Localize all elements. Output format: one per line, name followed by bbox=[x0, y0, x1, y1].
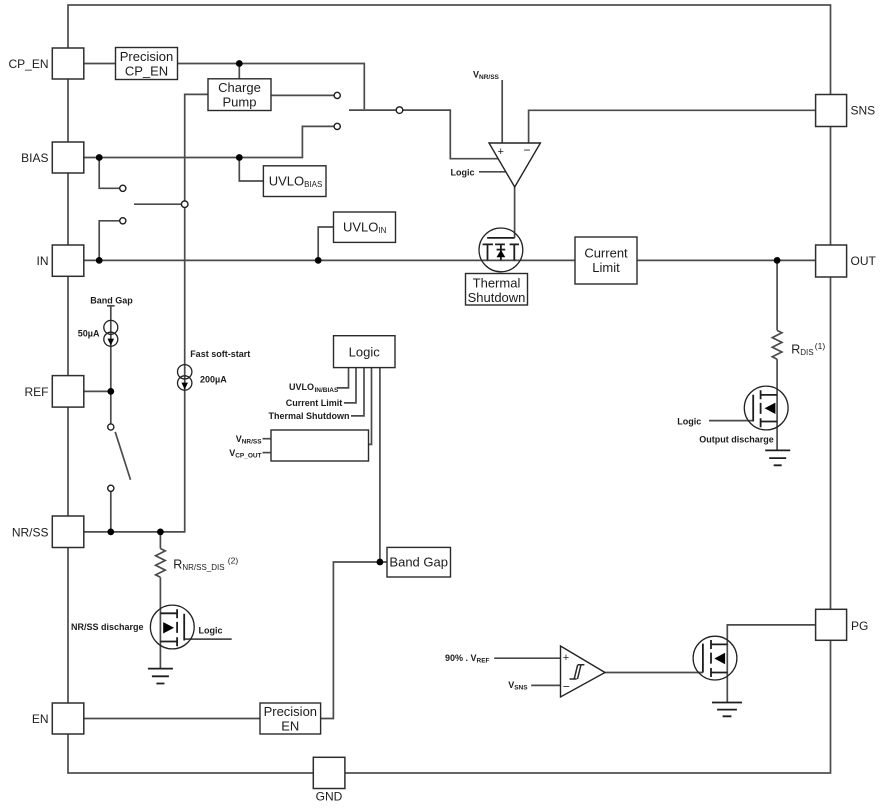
svg-text:REF: REF bbox=[25, 385, 49, 399]
switch pivot internal rail bbox=[181, 201, 188, 208]
ground for Q2 bbox=[765, 450, 790, 465]
wire main IN-OUT rail bbox=[84, 259, 816, 261]
Q2 body arrow bbox=[765, 403, 776, 414]
block UVLO_IN bbox=[334, 212, 396, 242]
wire branch to Charge Pump top bbox=[238, 64, 240, 79]
wire logic stub comparator box bbox=[369, 368, 372, 445]
switch contact from BIAS bbox=[120, 185, 126, 191]
Q4 gate bar bbox=[702, 644, 704, 673]
Q4 drain stub bbox=[711, 643, 727, 645]
Q1 body leg bbox=[500, 244, 502, 260]
svg-text:UVLO: UVLO bbox=[289, 382, 314, 392]
transistor Q3 NR/SS discharge body circle bbox=[150, 605, 194, 649]
switch contact charge pump bbox=[334, 92, 340, 98]
junction on OUT line at R_DIS bbox=[774, 257, 781, 264]
current source 200uA arrowhead bbox=[181, 383, 188, 390]
block Current Limit bbox=[575, 237, 637, 284]
wire error amp output to pass gate bbox=[514, 187, 516, 238]
comparator U2 power good bbox=[561, 646, 606, 697]
wire logic stub current limit bbox=[344, 368, 356, 403]
junction on IN line at switch branch bbox=[96, 257, 103, 264]
wire resistor to Q_nrss drain/source/ground bbox=[159, 577, 161, 668]
Q1 body diode arrow bbox=[497, 250, 506, 257]
pin BIAS bbox=[52, 142, 84, 173]
junction REF node bbox=[107, 388, 114, 395]
svg-text:NR/SS: NR/SS bbox=[12, 525, 49, 539]
Q3 source stub bbox=[160, 641, 177, 643]
Q1 gate bar bbox=[487, 237, 514, 239]
Q4 body arrow bbox=[714, 653, 725, 664]
svg-text:Fast soft-start: Fast soft-start bbox=[190, 349, 250, 359]
svg-text:Charge: Charge bbox=[218, 80, 261, 95]
wire IN to switch contact lower bbox=[99, 221, 119, 261]
svg-text:Current: Current bbox=[584, 246, 628, 261]
wire Precision CP_EN output to switch blade bbox=[178, 64, 365, 110]
switch contact NR/SS side bbox=[108, 485, 114, 491]
svg-text:Precision: Precision bbox=[264, 704, 317, 719]
wire PG comparator minus input bbox=[531, 684, 560, 686]
block Precision EN bbox=[260, 703, 321, 734]
Q1 drain leg bbox=[487, 244, 489, 260]
pin GND bbox=[313, 757, 345, 788]
svg-text:SNS: SNS bbox=[851, 104, 876, 118]
svg-text:Shutdown: Shutdown bbox=[468, 290, 526, 305]
Q1 body diode cathode bar bbox=[497, 249, 506, 251]
Q2 source stub bbox=[761, 421, 778, 423]
U2 hysteresis symbol bbox=[570, 665, 585, 679]
junction on CP_EN line bbox=[236, 60, 243, 67]
svg-text:Logic: Logic bbox=[199, 626, 223, 636]
junction on BIAS line at UVLO branch bbox=[236, 154, 243, 161]
Q3 body arrow bbox=[163, 622, 174, 633]
junction NR/SS at resistor branch bbox=[157, 529, 164, 536]
Q2 gate bar bbox=[752, 395, 754, 422]
block UVLO_BIAS bbox=[263, 166, 326, 197]
current source 50uA circles bbox=[104, 320, 118, 346]
svg-text:200µA: 200µA bbox=[200, 375, 227, 385]
pin EN bbox=[52, 703, 84, 734]
svg-text:Band Gap: Band Gap bbox=[389, 555, 448, 570]
block Thermal Shutdown bbox=[466, 274, 528, 306]
svg-text:−: − bbox=[563, 680, 570, 694]
Q3 gate bar bbox=[183, 614, 185, 641]
wire CP_EN pin to Precision CP_EN bbox=[84, 63, 116, 65]
wire gate stub Q_nrss bbox=[184, 638, 232, 640]
svg-text:Logic: Logic bbox=[451, 167, 475, 177]
svg-text:GND: GND bbox=[316, 790, 343, 804]
wire band gap tick bbox=[107, 305, 115, 307]
wire NR/SS to resistor RNRSS_DIS bbox=[159, 532, 161, 549]
pin NR/SS bbox=[52, 516, 84, 548]
svg-text:CP_EN: CP_EN bbox=[8, 57, 48, 71]
svg-text:(2): (2) bbox=[228, 556, 239, 566]
ground for Q4 bbox=[712, 703, 742, 717]
junction on BIAS line at switch branch bbox=[96, 154, 103, 161]
svg-text:Thermal: Thermal bbox=[473, 276, 521, 291]
wire Charge Pump output to switch contact bbox=[271, 94, 334, 96]
svg-text:Pump: Pump bbox=[223, 95, 257, 110]
svg-text:CP_EN: CP_EN bbox=[125, 64, 168, 79]
wire 50uA source shaft bbox=[110, 306, 112, 424]
svg-text:BIAS: BIAS bbox=[21, 151, 48, 165]
svg-text:EN: EN bbox=[281, 719, 299, 734]
switch contact REF side bbox=[108, 424, 114, 430]
svg-text:+: + bbox=[563, 652, 569, 664]
wire logic stub thermal shutdown bbox=[351, 368, 364, 416]
svg-text:EN: EN bbox=[32, 712, 49, 726]
wire REF/NRSS switch blade bbox=[115, 432, 130, 480]
wire v_nrss stub into box bbox=[263, 438, 272, 440]
wire logic stub UVLO bbox=[337, 368, 349, 388]
svg-text:(1): (1) bbox=[815, 341, 826, 351]
transistor Q4 PG pulldown body circle bbox=[693, 636, 737, 680]
Q3 drain stub bbox=[160, 612, 177, 614]
wire PG comparator output to Q_pg gate bbox=[605, 672, 703, 674]
Q2 drain stub bbox=[761, 394, 778, 396]
wire v_cp_out stub into box bbox=[263, 452, 272, 454]
wire R_DIS to Q_dis and ground bbox=[776, 359, 778, 450]
block Charge Pump bbox=[208, 79, 271, 111]
junction on IN line at UVLO_IN branch bbox=[315, 257, 322, 264]
svg-text:Limit: Limit bbox=[592, 260, 620, 275]
wire Precision EN to Band Gap bbox=[321, 562, 387, 719]
current source 200uA circles bbox=[178, 365, 192, 391]
switch contact bias feed bbox=[334, 123, 340, 129]
svg-text:50µA: 50µA bbox=[78, 329, 100, 339]
svg-text:OUT: OUT bbox=[851, 254, 877, 268]
svg-text:−: − bbox=[524, 143, 531, 157]
svg-text:Logic: Logic bbox=[677, 417, 701, 427]
current source 50uA arrowhead bbox=[108, 339, 115, 346]
resistor R_DIS zigzag bbox=[772, 330, 782, 359]
wire BIAS to UVLO_BIAS bbox=[239, 158, 263, 182]
svg-text:Logic: Logic bbox=[349, 345, 381, 360]
wire BIAS line to switch contact bbox=[84, 126, 334, 157]
pin SNS bbox=[816, 95, 847, 127]
wire switch blade CP bbox=[349, 109, 396, 111]
transistor Q2 output discharge body circle bbox=[744, 386, 788, 430]
wire Q_pg drain to PG pin bbox=[727, 625, 816, 703]
svg-text:Current Limit: Current Limit bbox=[286, 398, 343, 408]
op-amp U1 error amplifier bbox=[489, 143, 540, 187]
svg-text:Precision: Precision bbox=[120, 49, 173, 64]
svg-text:+: + bbox=[498, 146, 504, 158]
resistor R_NR/SS_DIS zigzag bbox=[156, 549, 166, 578]
junction band gap enable node bbox=[377, 559, 384, 566]
wire internal supply rail to NR/SS bbox=[84, 94, 208, 532]
svg-text:Output discharge: Output discharge bbox=[699, 435, 774, 445]
junction NR/SS at 50uA branch bbox=[107, 529, 114, 536]
pin REF bbox=[52, 376, 84, 408]
block Precision CP_EN bbox=[116, 48, 178, 80]
wire logic gate stub Q_dis bbox=[709, 420, 753, 422]
switch contact from IN bbox=[120, 218, 126, 224]
pin PG bbox=[816, 609, 847, 640]
svg-text:NR/SS discharge: NR/SS discharge bbox=[71, 622, 144, 632]
wire UVLO_IN branch to IN rail bbox=[318, 227, 333, 260]
block comparator collapse box bbox=[271, 430, 369, 461]
Q1 source leg bbox=[513, 244, 515, 260]
pin OUT bbox=[816, 245, 847, 277]
block Band Gap bbox=[387, 547, 451, 577]
wire logic stub into error amp bbox=[479, 171, 506, 173]
svg-text:PG: PG bbox=[851, 619, 868, 633]
block Logic bbox=[334, 336, 396, 368]
svg-text:IN: IN bbox=[37, 254, 49, 268]
Q2 channel segments bbox=[760, 390, 762, 427]
wire BIAS to switch contact upper bbox=[99, 158, 119, 189]
Q4 source stub bbox=[711, 672, 727, 674]
wire lower contact to NR/SS line bbox=[110, 491, 112, 532]
Q1 channel segments bbox=[483, 243, 519, 245]
svg-text:Band Gap: Band Gap bbox=[90, 295, 133, 305]
svg-text:IN/BIAS: IN/BIAS bbox=[315, 387, 340, 394]
ground for Q3 bbox=[148, 669, 173, 684]
wire blade BIAS/IN select bbox=[134, 203, 182, 205]
svg-text:Thermal Shutdown: Thermal Shutdown bbox=[269, 411, 350, 421]
wire OUT rail to R_DIS bbox=[776, 260, 778, 330]
wire REF pin to node bbox=[84, 390, 111, 392]
wire logic to bandgap node bbox=[379, 368, 381, 562]
Q3 channel segments bbox=[176, 609, 178, 646]
wire switch common to error amp supply bbox=[403, 110, 498, 159]
wire V_NR/SS to error amp plus input bbox=[501, 80, 503, 143]
switch pivot gate supply bbox=[396, 107, 403, 114]
wire SNS feedback to error amp minus input bbox=[529, 110, 816, 143]
pass transistor Q1 body circle bbox=[479, 228, 523, 272]
Q4 channel segments bbox=[710, 640, 712, 677]
pin CP_EN bbox=[52, 48, 84, 79]
wire EN pin to Precision EN bbox=[83, 718, 260, 720]
pin IN bbox=[52, 245, 84, 276]
wire PG comparator plus input bbox=[494, 657, 560, 659]
